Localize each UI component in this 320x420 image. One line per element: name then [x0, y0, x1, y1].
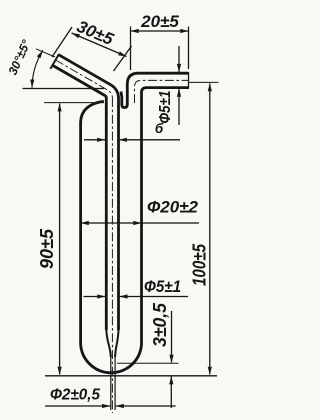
- dim Ф5±1 (inner) left arrow: [84, 296, 106, 298]
- svg-text:Ф5±1: Ф5±1: [157, 91, 174, 124]
- side arm end cap: [188, 72, 190, 89]
- inner tube taper left: [106, 328, 111, 357]
- dim 3±0,5 upper segment: [171, 311, 173, 363]
- dim 100±5 text: [190, 243, 210, 286]
- dim 100±5 line: [209, 84, 211, 375]
- dim Ф5±1 (arm) text: [157, 91, 174, 124]
- dim 3±0,5 text: [150, 302, 170, 347]
- svg-text:Ф5±1: Ф5±1: [144, 277, 181, 296]
- dim Ф20±2 line: [81, 222, 199, 224]
- svg-text:Ф2±0,5: Ф2±0,5: [50, 387, 101, 404]
- dim 90±5 ext top: [44, 102, 104, 104]
- diagonal centerline: [56, 60, 113, 98]
- svg-text:б: б: [155, 121, 164, 136]
- dim 3±0,5 upper ext line: [117, 362, 179, 364]
- bottom reference line: [45, 375, 217, 377]
- main vertical centerline: [111, 98, 113, 413]
- outer tube top seal and side arm upper wall: [121, 73, 189, 107]
- angle leg extension (tube axis): [36, 49, 55, 57]
- angle text 30°±5°: [6, 38, 34, 77]
- outer tube body: [81, 88, 189, 373]
- dim 20±5 ext right: [188, 27, 190, 70]
- dim 30±5 text: [74, 17, 117, 49]
- dim 90±5 text: [37, 228, 57, 269]
- angle ref horizontal line: [23, 88, 105, 90]
- dim 3±0,5 lower segment: [170, 376, 172, 408]
- dim Ф5±1 (arm) lower segment: [178, 89, 180, 125]
- angle arc: [32, 50, 43, 87]
- capillary wall / extension right: [114, 356, 116, 410]
- dim Ф5±1 (inner) right arrow and tail: [119, 296, 188, 298]
- dim 6 left arrow: [84, 139, 105, 141]
- dim Ф2±0,5 left segment: [45, 405, 110, 407]
- svg-text:90±5: 90±5: [37, 228, 57, 269]
- dim 20±5 line: [131, 30, 189, 32]
- dim 100±5 ext top: [189, 81, 219, 83]
- svg-text:Ф20±2: Ф20±2: [147, 198, 199, 217]
- svg-text:3±0,5: 3±0,5: [150, 302, 170, 347]
- dim Ф2±0,5 right segment: [116, 405, 176, 407]
- dim 30±5 ext left: [52, 27, 72, 57]
- side arm centerline: [135, 80, 189, 103]
- inner tube taper right: [115, 328, 118, 357]
- diagonal tube end cap: [50, 54, 59, 69]
- svg-text:20±5: 20±5: [140, 12, 179, 31]
- dim 90±5 line: [59, 104, 61, 375]
- inner tube right/top wall: [59, 55, 119, 330]
- dim 30±5 line: [72, 33, 127, 57]
- dim 20±5 ext left: [130, 27, 132, 71]
- capillary wall / extension left: [110, 356, 112, 410]
- svg-text:100±5: 100±5: [190, 243, 210, 286]
- dim Ф5±1 (arm) upper segment: [178, 46, 180, 72]
- dim 6 right arrow and tail: [119, 139, 180, 141]
- dim 30±5 ext right: [114, 46, 132, 71]
- inner tube left/bottom wall: [52, 65, 106, 330]
